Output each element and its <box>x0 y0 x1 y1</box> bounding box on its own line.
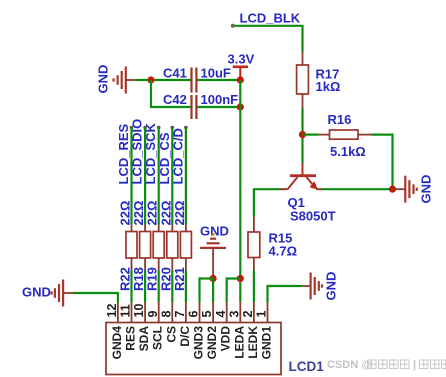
node junction 3.3V/C41 <box>237 76 244 83</box>
svg-text:D/C: D/C <box>178 326 192 347</box>
node junction C41 left <box>147 76 154 83</box>
svg-text:10: 10 <box>132 304 146 318</box>
pin 8 stub <box>171 302 173 323</box>
svg-text:VDD: VDD <box>219 326 233 352</box>
signal net LCD_C/D <box>170 126 187 225</box>
wire R22 to pin 11 <box>130 271 132 303</box>
svg-text:4: 4 <box>214 311 228 318</box>
signal net LCD_SCK <box>143 122 160 224</box>
ground right of Q1 <box>393 175 434 204</box>
wire R18 to pin 10 <box>144 271 146 303</box>
pin 12 stub <box>117 302 119 323</box>
node junction 3.3V pin3 <box>237 275 244 282</box>
transistor Q1 <box>280 163 336 224</box>
signal net LCD_SDIO <box>130 119 147 225</box>
capacitor C42 <box>163 92 238 119</box>
pin 10 stub <box>144 302 146 323</box>
svg-text:8: 8 <box>159 311 173 318</box>
svg-text:10uF: 10uF <box>201 66 231 81</box>
svg-text:GND: GND <box>324 272 339 301</box>
pin 6 stub <box>199 302 201 323</box>
wire pin 1 to ground <box>268 286 302 302</box>
svg-text:CSDN @: CSDN @ <box>327 359 372 371</box>
svg-text:LCD_C/D: LCD_C/D <box>170 128 185 184</box>
resistor R22 <box>118 201 138 291</box>
wire collector to R15 <box>254 189 280 216</box>
svg-text:|: | <box>413 359 416 371</box>
pin 1 stub <box>267 302 269 323</box>
node junction emitter/R16/GND <box>389 186 396 193</box>
svg-text:GND: GND <box>96 65 111 94</box>
capacitor C41 <box>163 66 231 93</box>
ground middle inverted <box>200 224 229 279</box>
svg-text:S8050T: S8050T <box>290 209 336 224</box>
svg-text:1: 1 <box>255 311 269 318</box>
svg-text:GND3: GND3 <box>192 326 206 360</box>
svg-text:LCD_BLK: LCD_BLK <box>240 11 301 26</box>
svg-text:3.3V: 3.3V <box>228 52 255 67</box>
svg-text:1kΩ: 1kΩ <box>316 79 341 94</box>
node junction C42/3.3V line <box>237 103 244 110</box>
svg-text:R21: R21 <box>172 267 187 291</box>
svg-text:2: 2 <box>241 311 255 318</box>
wire C42 right to 3.3V line <box>198 106 241 108</box>
signal net LCD_CS <box>157 126 174 225</box>
resistor R15 <box>248 217 297 271</box>
ground bottom-left <box>22 280 73 307</box>
svg-text:RES: RES <box>124 326 138 351</box>
svg-text:100nF: 100nF <box>201 92 239 107</box>
wire R20 to pin 8 <box>171 271 173 303</box>
svg-text:3: 3 <box>227 311 241 318</box>
wire C41 right to 3.3V <box>198 79 241 81</box>
pin 2 stub <box>253 302 255 323</box>
wire R21 to pin 7 <box>185 271 187 303</box>
wire LCD_BLK horizontal <box>233 26 303 52</box>
svg-text:9: 9 <box>146 311 160 318</box>
pin 9 stub <box>158 302 160 323</box>
resistor R20 <box>158 201 178 291</box>
wire 3.3V down to LEDA pin 3 <box>239 80 241 302</box>
wire emitter to GND junction <box>322 188 393 190</box>
watermark CSDN <box>327 359 446 371</box>
svg-text:GND1: GND1 <box>260 326 274 360</box>
svg-text:LEDA: LEDA <box>232 326 246 359</box>
wire R15 to pin 2 <box>253 271 255 303</box>
wire GND to C41 <box>136 79 191 81</box>
node LCD_BLK port dot <box>231 24 235 28</box>
svg-text:GND2: GND2 <box>205 326 219 360</box>
wire R17 bottom to Q1 base <box>301 108 303 163</box>
node junction R17/R16 <box>299 131 306 138</box>
svg-text:LEDK: LEDK <box>246 326 260 359</box>
svg-text:GND: GND <box>200 224 229 239</box>
svg-text:C42: C42 <box>163 92 187 107</box>
pin 7 stub <box>185 302 187 323</box>
wire junction down to C42 row <box>151 80 191 107</box>
pin 4 stub <box>226 302 228 323</box>
resistor R18 <box>131 201 151 291</box>
svg-text:GND4: GND4 <box>110 326 124 360</box>
svg-text:5.1kΩ: 5.1kΩ <box>330 144 366 159</box>
pin 5 stub <box>212 302 214 323</box>
svg-text:CS: CS <box>164 326 178 343</box>
wire R19 to pin 9 <box>158 271 160 303</box>
power 3.3V symbol <box>228 52 255 81</box>
svg-text:22Ω: 22Ω <box>172 201 187 226</box>
wire ground to pin 12 <box>73 293 118 302</box>
svg-text:R16: R16 <box>328 112 352 127</box>
ground top-left <box>96 65 136 94</box>
resistor R19 <box>145 201 165 291</box>
ground bottom-right <box>301 272 339 301</box>
wire GND junction to pin 6 <box>200 279 214 303</box>
signal net LCD_RES <box>116 123 133 224</box>
svg-text:12: 12 <box>105 304 119 318</box>
svg-text:GND: GND <box>419 175 434 204</box>
wire R16 right down to emitter net <box>372 135 393 190</box>
resistor R16 <box>319 112 372 159</box>
wire 3.3V junction to pin 4 <box>227 279 241 303</box>
wire GND junction to pin 5 <box>212 279 214 303</box>
svg-text:4.7Ω: 4.7Ω <box>269 244 298 259</box>
resistor R21 <box>172 201 192 291</box>
svg-text:C41: C41 <box>163 66 187 81</box>
resistor R17 <box>297 52 341 109</box>
node junction GND pin5 <box>210 275 217 282</box>
wire junction to R16 <box>303 134 319 136</box>
connector LCD1 box <box>106 323 281 375</box>
svg-text:GND: GND <box>22 285 51 300</box>
svg-text:11: 11 <box>119 304 133 317</box>
svg-text:6: 6 <box>187 311 201 318</box>
svg-text:SDA: SDA <box>137 326 151 352</box>
svg-text:SCL: SCL <box>151 326 165 350</box>
pin 3 stub <box>239 302 241 323</box>
svg-text:5: 5 <box>200 311 214 318</box>
svg-text:LCD1: LCD1 <box>289 359 325 374</box>
svg-text:7: 7 <box>173 311 187 318</box>
pin 11 stub <box>131 302 133 323</box>
